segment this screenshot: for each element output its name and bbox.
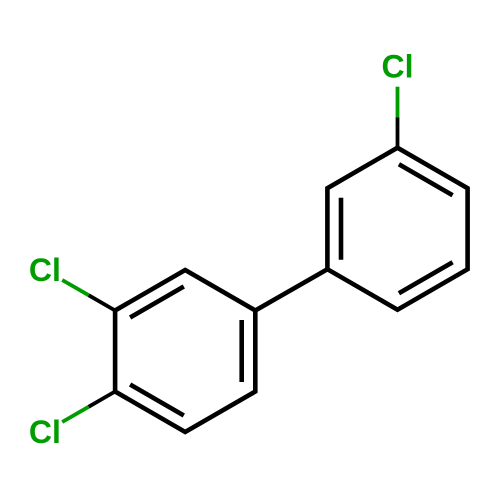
left benzene ring outline	[115, 270, 255, 432]
right ring double bond inner line (top-right edge)	[399, 164, 453, 195]
bond to Cl1 black half	[396, 117, 400, 148]
right ring double bond inner line (left edge)	[339, 198, 344, 260]
right benzene ring outline	[327, 148, 467, 310]
left ring double bond inner line (top-left edge)	[130, 287, 184, 318]
left ring double bond inner line (right edge)	[239, 320, 244, 382]
biphenyl single bond between rings	[255, 269, 327, 310]
bond to Cl3 green half	[62, 407, 88, 422]
svg-text:Cl: Cl	[29, 252, 61, 288]
bond to Cl2 green half	[62, 280, 88, 295]
left ring double bond inner line (bottom-left edge)	[130, 385, 184, 416]
svg-text:Cl: Cl	[29, 414, 61, 450]
bond to Cl2 black half	[89, 295, 116, 310]
right ring double bond inner line (bottom-right edge)	[399, 262, 453, 293]
bond to Cl1 green half	[396, 87, 400, 118]
bond to Cl3 black half	[89, 392, 116, 407]
svg-text:Cl: Cl	[382, 49, 414, 85]
